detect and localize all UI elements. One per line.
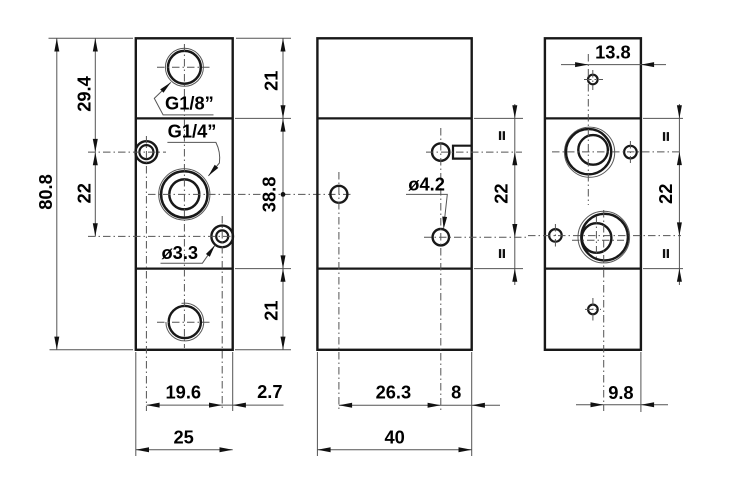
- equals bottom right: [663, 249, 669, 258]
- extension line right bottom: [235, 349, 291, 351]
- arrows 21 top: [281, 38, 286, 118]
- svg-text:8: 8: [451, 382, 461, 403]
- extension middle left edge down: [316, 352, 318, 456]
- leader arrowhead G1/8: [160, 82, 171, 92]
- centerline top hole vertical: [592, 70, 594, 90]
- equals top middle: [499, 131, 505, 140]
- port G1/8 thread circle: [165, 48, 203, 86]
- top port thin circle: [565, 127, 615, 177]
- svg-text:26.3: 26.3: [376, 382, 412, 403]
- leader G1/8: [154, 82, 213, 115]
- leader arrowhead G1/4: [208, 165, 218, 176]
- top small hole: [588, 75, 598, 85]
- dimension line 13.8: [561, 64, 666, 66]
- extension right edge down: [232, 352, 234, 411]
- hole at tab: [432, 143, 449, 160]
- top port inner circle: [578, 135, 608, 165]
- arrows 40: [317, 447, 471, 452]
- top port outer circle: [566, 129, 611, 174]
- counterbore hole outer: [136, 141, 158, 163]
- dimension line 9.8: [576, 404, 668, 406]
- arrows 29.4: [93, 38, 98, 152]
- right view lower divider: [545, 267, 641, 269]
- equals bottom middle: [499, 249, 505, 258]
- bottom port bold circle: [169, 306, 201, 338]
- bottom port thread arc: [166, 303, 204, 341]
- arrows 9.8: [591, 402, 655, 407]
- right view outline: [545, 38, 641, 350]
- port G1/4 outer circle: [161, 171, 207, 217]
- centerline top port horizontal: [552, 151, 681, 153]
- hole left middle view: [330, 186, 347, 203]
- svg-text:25: 25: [174, 426, 194, 447]
- arrows 22 left: [93, 152, 98, 236]
- extension right view d1: [643, 117, 683, 119]
- equals top right: [663, 132, 669, 141]
- svg-text:22: 22: [491, 183, 512, 203]
- arrow eq bottom right: [677, 269, 682, 282]
- svg-text:G1/8”: G1/8”: [165, 93, 214, 114]
- extension line right d2: [235, 268, 291, 270]
- centerline bottom port horizontal: [157, 321, 212, 323]
- bottom port outer circle: [581, 214, 628, 261]
- centerline hole 4.2 horizontal: [424, 236, 529, 238]
- centerline bottom hole vertical: [592, 298, 594, 321]
- middle view upper divider: [317, 117, 471, 119]
- centerline tab hole horizontal: [426, 151, 522, 153]
- middle view outline: [317, 38, 471, 350]
- svg-text:ø3.3: ø3.3: [162, 242, 199, 263]
- leader arrowhead 4.2: [442, 217, 447, 230]
- svg-text:13.8: 13.8: [595, 42, 631, 63]
- dimension line 26.3 and 8: [339, 404, 500, 406]
- svg-text:21: 21: [260, 71, 281, 91]
- extension middle right d1: [474, 117, 523, 119]
- centerline right view upper vertical: [587, 54, 589, 205]
- dimension line 19.6 and 2.7: [146, 404, 283, 406]
- svg-text:80.8: 80.8: [35, 174, 56, 210]
- arrow eq bottom middle: [512, 269, 517, 282]
- arrow 22 top right: [677, 152, 682, 165]
- left view outline: [136, 38, 233, 350]
- svg-text:29.4: 29.4: [73, 75, 94, 111]
- centerline bottom hole horizontal: [585, 308, 601, 310]
- right view upper divider: [545, 117, 641, 119]
- counterbore hole inner: [139, 145, 153, 159]
- centerline G1/4 horizontal long: [148, 193, 352, 195]
- extension right view d2: [643, 268, 683, 270]
- centerline counterbore vertical: [145, 136, 147, 411]
- hole 4.2: [433, 229, 449, 245]
- centerline middle left hole vertical: [338, 172, 340, 411]
- centerline hole3.3 vertical: [221, 216, 223, 411]
- extension line top left: [49, 37, 134, 39]
- dimension line 29.4 and 22: [94, 38, 96, 236]
- svg-text:22: 22: [655, 184, 676, 204]
- centerline main vertical left view: [183, 44, 185, 348]
- svg-text:2.7: 2.7: [257, 381, 282, 402]
- hole 3.3 outer circle: [211, 226, 233, 248]
- arrow 2.7: [233, 403, 246, 408]
- extension right edge down right view: [640, 352, 642, 412]
- centerline side hole right vertical: [629, 141, 631, 163]
- svg-text:22: 22: [73, 183, 94, 203]
- centerline bottom inner horizontal: [572, 239, 624, 241]
- centerline bottom port horizontal: [528, 235, 681, 237]
- extension middle right d2: [474, 268, 523, 270]
- centerline right view lower vertical: [603, 210, 605, 411]
- dimension line 25: [136, 449, 233, 451]
- dimension line eq 22 eq right: [678, 104, 680, 285]
- arrow 8: [472, 403, 485, 408]
- arrows 26.3: [339, 403, 441, 408]
- arrow 22 bottom right: [677, 222, 682, 235]
- svg-text:9.8: 9.8: [608, 382, 633, 403]
- arrow 22 top middle: [512, 152, 517, 165]
- arrow eq top middle: [512, 105, 517, 118]
- tab slot: [453, 146, 471, 159]
- side hole right: [624, 146, 637, 159]
- hole 3.3 inner circle: [216, 230, 228, 242]
- centerline side hole left vertical: [554, 224, 556, 247]
- left view upper divider: [136, 117, 233, 119]
- bottom port thin circle: [578, 211, 630, 263]
- centerline hole3.3 horizontal: [88, 235, 233, 237]
- dimension line 80.8: [56, 38, 58, 350]
- port G1/8 bold circle: [168, 51, 201, 84]
- svg-text:19.6: 19.6: [166, 381, 202, 402]
- bottom small hole: [588, 305, 598, 315]
- extension left edge down: [135, 352, 137, 456]
- dimension line eq 22 eq middle: [514, 104, 516, 285]
- port G1/4 inner circle: [169, 179, 199, 209]
- leader G1/4: [167, 142, 219, 176]
- extension middle right edge down: [471, 352, 473, 456]
- leader 4.2: [406, 194, 447, 222]
- svg-text:G1/4”: G1/4”: [168, 121, 217, 142]
- svg-text:ø4.2: ø4.2: [408, 173, 445, 194]
- extension line right d1: [235, 117, 291, 119]
- centerline counterbore horizontal: [88, 151, 166, 153]
- centerline bottom inner vertical: [595, 216, 597, 259]
- left view lower divider: [136, 267, 233, 269]
- arrows 80.8: [54, 38, 59, 350]
- centerline top hole horizontal: [584, 79, 603, 81]
- arrows 21 bottom: [281, 269, 286, 350]
- bottom port inner circle: [582, 223, 612, 253]
- arrows 38.8: [281, 118, 286, 268]
- side hole left: [549, 229, 562, 242]
- svg-text:21: 21: [260, 300, 281, 320]
- dimension line 40: [317, 449, 471, 451]
- port G1/4 thread circle: [159, 169, 210, 220]
- leader hole 3.3: [161, 245, 216, 263]
- svg-text:40: 40: [385, 427, 405, 448]
- arrow eq top right: [677, 105, 682, 118]
- middle view lower divider: [317, 267, 471, 269]
- arrows 19.6: [146, 403, 222, 408]
- centerline middle right holes vertical: [440, 128, 442, 411]
- arrow 22 bottom middle: [512, 224, 517, 237]
- centerline G1/8 horizontal: [157, 66, 211, 68]
- arrows 25: [136, 447, 233, 452]
- leader arrowhead 3.3: [206, 245, 215, 257]
- dimension line 21 38.8 21: [282, 38, 284, 350]
- extension line right top: [236, 37, 291, 39]
- extension line bottom left: [50, 349, 134, 351]
- arrows 13.8: [575, 62, 654, 67]
- node dot 38.8: [281, 192, 286, 197]
- svg-text:38.8: 38.8: [258, 177, 279, 213]
